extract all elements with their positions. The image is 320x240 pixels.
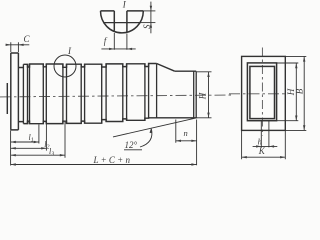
l1 dimension line	[11, 141, 39, 143]
svg-text:C: C	[24, 34, 31, 44]
angle leader arc	[140, 129, 152, 147]
K dimension line	[242, 156, 286, 158]
L+C+n dimension line	[11, 164, 197, 166]
side H dimension extension lines	[277, 63, 298, 121]
S dimension line	[150, 2, 152, 34]
side H dimension line	[295, 63, 297, 121]
svg-text:12°: 12°	[125, 140, 138, 150]
tooth faces groove 1	[28, 64, 30, 124]
l3 dimension line	[11, 154, 65, 156]
tooth faces groove 4	[81, 64, 84, 123]
tooth faces groove 5	[102, 64, 106, 123]
svg-text:I: I	[122, 0, 127, 9]
svg-text:l3: l3	[49, 147, 54, 158]
flange (pull end)	[11, 53, 19, 130]
l2 dimension line	[11, 147, 47, 149]
n dimension extension lines	[176, 120, 197, 166]
detail view semicircle	[101, 11, 144, 33]
tooth faces groove 7	[145, 64, 149, 121]
front pilot top edge	[175, 70, 197, 72]
H dimension line	[208, 72, 210, 118]
tooth face T1	[22, 64, 24, 123]
side view centerline vertical	[261, 48, 263, 136]
detail indicator circle I	[54, 55, 76, 77]
l3 extension line	[64, 122, 66, 158]
H dimension (main view) extension lines	[197, 72, 212, 118]
tooth faces groove 3	[63, 64, 67, 124]
detail slot walls	[114, 11, 127, 32]
taper top edge	[157, 64, 175, 72]
tooth faces groove 2	[43, 64, 46, 124]
l1 extension line	[11, 125, 39, 166]
C dimension extension lines	[11, 42, 19, 52]
svg-text:n: n	[184, 128, 188, 138]
centerline main view	[0, 95, 232, 97]
svg-text:B: B	[294, 88, 304, 94]
side view centerline horizontal	[229, 93, 288, 95]
end face lines	[194, 71, 197, 118]
f dimension line	[101, 48, 135, 50]
svg-text:h: h	[258, 137, 262, 147]
svg-text:f: f	[104, 36, 108, 46]
side view inner rectangle	[250, 66, 275, 118]
rear face at taper start	[156, 64, 158, 118]
side B dimension line	[303, 56, 305, 130]
side view middle rectangle	[247, 63, 276, 121]
svg-text:I: I	[67, 46, 72, 56]
side view outer rectangle	[242, 56, 286, 130]
angle reference slanted line	[113, 118, 197, 137]
detail top edges	[101, 10, 144, 12]
detail chord line	[104, 22, 140, 24]
tooth faces groove 6	[123, 64, 127, 122]
svg-text:S: S	[142, 24, 152, 29]
h dimension line	[253, 145, 278, 147]
l2 extension line	[45, 122, 47, 151]
C dimension line	[6, 44, 29, 46]
body bottom edge	[23, 118, 196, 124]
svg-text:l1: l1	[29, 133, 34, 144]
n dimension line	[176, 140, 197, 142]
h dimension extension lines	[261, 121, 269, 147]
svg-text:L + C + n: L + C + n	[93, 155, 131, 165]
K dimension extension lines	[242, 131, 286, 159]
svg-text:K: K	[258, 146, 266, 156]
side B dimension extension lines	[286, 56, 307, 130]
neck	[18, 68, 23, 122]
body top edge	[23, 64, 156, 68]
left end face line	[6, 83, 8, 114]
svg-text:H: H	[198, 92, 208, 100]
f dimension extension lines	[114, 33, 127, 50]
